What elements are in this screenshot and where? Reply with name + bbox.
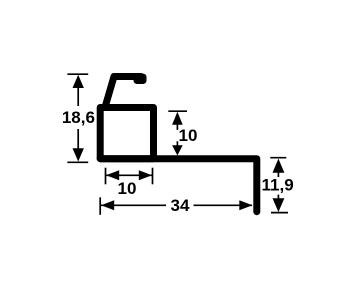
dimension 11,9 bottom tick — [271, 212, 288, 214]
dimension 34 line right — [194, 204, 253, 206]
dimension 10 vertical top tick — [168, 110, 187, 112]
svg-text:11,9: 11,9 — [262, 175, 294, 194]
dimension 34 arrow left — [101, 200, 114, 210]
dimension 11,9 top tick — [270, 157, 286, 159]
dimension 10 horizontal right tick — [152, 168, 154, 185]
dimension 10 horizontal line — [106, 174, 152, 176]
dimension 10 horizontal left tick — [105, 168, 107, 185]
dimension 34 arrow right — [239, 200, 252, 210]
dimension 18,6 line lower — [77, 129, 79, 157]
dimension 11,9 line upper — [277, 162, 279, 177]
dimension 18,6 bottom tick — [67, 161, 88, 163]
svg-text:10: 10 — [179, 126, 198, 145]
dimension 10 horizontal arrow left — [106, 170, 119, 180]
dimension 10 vertical line upper — [176, 116, 178, 130]
profile bottom web and right leg — [100, 159, 257, 212]
profile top flange and diagonal wall — [106, 77, 141, 106]
dimension 34 line left — [101, 204, 166, 206]
dimension 10 vertical arrow down — [172, 145, 183, 155]
svg-text:34: 34 — [171, 196, 190, 215]
svg-text:10: 10 — [118, 179, 137, 198]
dimension 18,6 arrow up — [73, 75, 84, 88]
dimension 10 vertical line lower — [176, 141, 178, 146]
dimension 34 left tick — [99, 197, 101, 215]
dimension 10 vertical arrow up — [172, 112, 183, 125]
profile hook nose — [134, 74, 147, 84]
dimension 18,6 line upper — [77, 80, 79, 106]
dimension 18,6 top tick — [67, 73, 88, 75]
dimension 18,6 arrow down — [73, 148, 84, 161]
svg-text:18,6: 18,6 — [62, 108, 95, 127]
dimension 11,9 arrow up — [273, 159, 285, 173]
dimension 11,9 line lower — [277, 195, 279, 204]
dimension 10 horizontal arrow right — [139, 170, 152, 180]
profile hollow chamber box — [100, 108, 153, 159]
dimension 11,9 arrow down — [273, 198, 285, 212]
